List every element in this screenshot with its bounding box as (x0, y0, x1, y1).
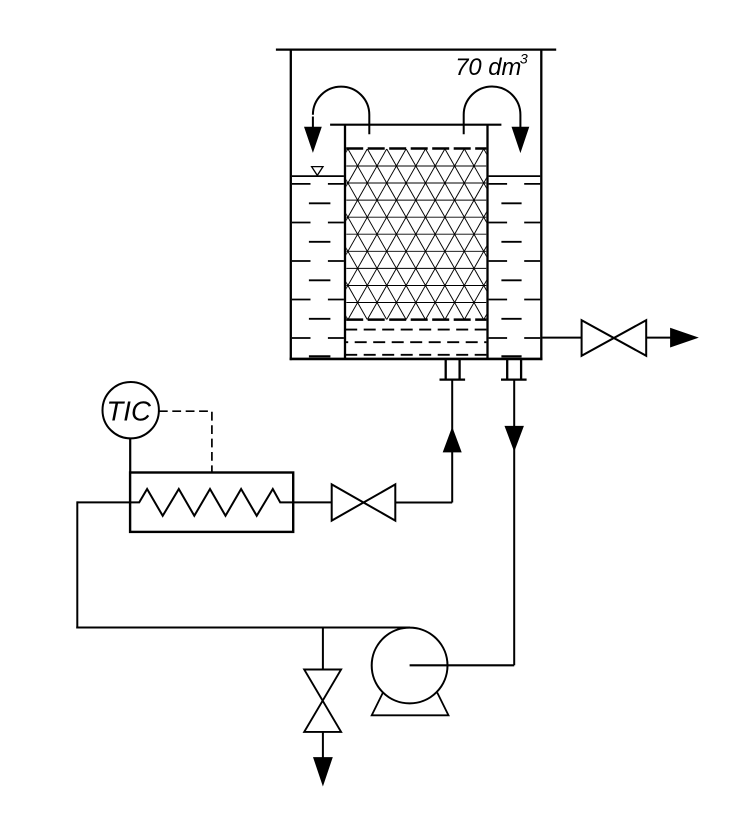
heater E1 box (130, 473, 293, 532)
drain arrowhead (314, 758, 332, 785)
svg-text:3: 3 (520, 52, 528, 68)
inner basket right wall (486, 125, 488, 359)
inner basket left wall (344, 125, 346, 359)
pipe valve V2 to riser (395, 502, 452, 504)
left annulus liquid surface (292, 175, 344, 177)
inner basket rim (330, 124, 501, 126)
tank T1 left wall (290, 49, 292, 361)
loop bottom pipe (76, 627, 410, 629)
packing bottom dashed boundary (346, 318, 486, 321)
heater element zigzag (77, 489, 331, 516)
loop left vertical pipe (76, 501, 78, 628)
valve V1 (582, 320, 647, 356)
return downcomer arrowhead (down) (505, 426, 523, 450)
left overflow arrowhead (305, 127, 321, 151)
right bottom nozzle (501, 359, 527, 380)
feed riser arrowhead (up) (443, 428, 461, 452)
pump discharge pipe (410, 664, 515, 666)
packing lattice (135, 149, 581, 320)
valve V2 (332, 484, 396, 520)
tank T1 right wall (540, 49, 542, 361)
valve V3 (drain) (304, 670, 341, 732)
right overflow arc (464, 86, 521, 134)
svg-text:70 dm: 70 dm (455, 54, 521, 81)
feed riser pipe (451, 380, 453, 503)
right annulus liquid hatch (489, 184, 541, 356)
return downcomer pipe (513, 380, 515, 666)
pump P1 stand (372, 693, 449, 716)
left annulus liquid hatch (292, 184, 344, 356)
right overflow arrowhead (512, 127, 528, 151)
controller TIC circle (103, 382, 159, 438)
TIC stem (129, 438, 131, 472)
packing top dashed boundary (346, 147, 486, 150)
TIC signal dashed line (159, 411, 212, 471)
tank T1 lid (276, 48, 556, 50)
outlet arrow pipe (646, 337, 672, 339)
svg-text:TIC: TIC (107, 396, 151, 427)
left bottom nozzle (440, 359, 466, 380)
drain branch pipe (322, 628, 324, 670)
liquid dashes inside basket (345, 330, 486, 355)
level indicator symbol (312, 167, 323, 176)
left overflow arc (313, 87, 369, 135)
outlet flow arrowhead (671, 328, 698, 346)
tank T1 bottom (290, 358, 543, 361)
outlet pipe (542, 337, 581, 339)
right annulus liquid surface (489, 175, 541, 177)
pump P1 circle (372, 628, 448, 704)
drain outlet pipe (322, 732, 324, 759)
